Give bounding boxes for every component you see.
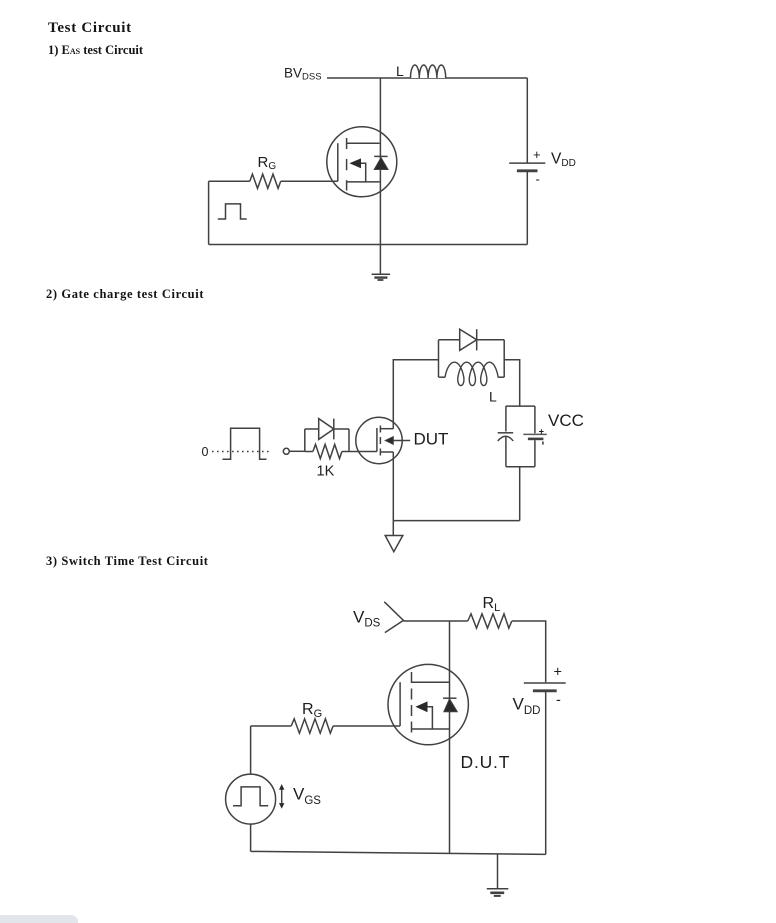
VCC block bottom bar [506, 466, 535, 468]
svg-text:VDS: VDS [353, 608, 381, 630]
label RG circuit3 [302, 701, 322, 720]
wire left vertical circuit1 [208, 181, 210, 244]
dotted reference line [212, 451, 270, 453]
label L [396, 63, 404, 79]
wire top rail circuit1 [327, 77, 527, 79]
wire to gate circuit2 [349, 451, 377, 453]
pulse symbol circuit2 [223, 428, 267, 459]
wire RL to battery [512, 621, 546, 682]
svg-text:+: + [539, 427, 544, 437]
resistor RL [468, 614, 512, 628]
label VDD circuit3 [513, 695, 541, 718]
ground circuit1 [372, 274, 391, 280]
svg-text:VCC: VCC [548, 411, 584, 430]
wire bottom rail circuit3 [251, 851, 546, 854]
wire RG to gate [333, 725, 400, 727]
svg-text:RG: RG [258, 154, 277, 172]
node left of RC network [304, 429, 306, 452]
svg-text:-: - [556, 693, 561, 709]
wire drain vertical to ground circuit1 [379, 78, 381, 274]
wire pulse-gen to resistor [209, 180, 250, 182]
wire clamp to VCC [504, 360, 520, 406]
title: Test Circuit [48, 20, 132, 37]
svg-text:BVDSS: BVDSS [284, 66, 322, 83]
svg-text:RL: RL [483, 595, 501, 614]
svg-text:L: L [396, 63, 404, 79]
wire drain-source vertical circuit3 [449, 621, 451, 854]
svg-text:VDD: VDD [513, 695, 541, 718]
minus tick VCC [542, 442, 544, 445]
wire bottom rail circuit2 [393, 520, 519, 522]
battery VDD circuit1 [509, 163, 545, 244]
svg-text:0: 0 [202, 445, 209, 459]
label RL [483, 595, 501, 614]
capacitor branch [498, 406, 514, 467]
mosfet Q1 (DUT) [327, 127, 397, 197]
wire diode down to resistor node [348, 429, 350, 452]
diode D2 freewheel [439, 329, 505, 350]
wire resistor to gate [281, 180, 338, 182]
label - minus circuit1 [536, 172, 540, 187]
label VDD circuit1 [551, 151, 576, 170]
ground arrow circuit2 [385, 521, 403, 552]
svg-text:DUT: DUT [414, 430, 449, 449]
label RG [258, 154, 277, 172]
wire right vertical top circuit1 [526, 78, 528, 163]
svg-text:VGS: VGS [293, 785, 321, 808]
label 1K [317, 464, 335, 480]
resistor 1K [305, 444, 349, 458]
clamp left vertical [438, 340, 440, 377]
label D.U.T [461, 752, 511, 772]
resistor RG circuit3 [291, 719, 333, 733]
heading 2) Gate charge test Circuit [46, 287, 204, 302]
label + plus circuit1 [533, 147, 541, 162]
svg-text:D.U.T: D.U.T [461, 752, 511, 772]
DUT pointer arrow [385, 437, 410, 445]
heading 1) Eas test Circuit [48, 43, 143, 58]
pulse symbol circuit1 [218, 204, 247, 219]
wire source down circuit2 [392, 452, 394, 521]
label + plus circuit3 [554, 665, 562, 681]
probe arrow VDS [384, 602, 403, 633]
wire probe to RL [403, 620, 467, 622]
svg-text:+: + [533, 147, 541, 162]
wire VCC down to bottom rail [519, 467, 521, 521]
svg-text:VDD: VDD [551, 151, 576, 170]
label 0 [202, 445, 209, 459]
svg-text:L: L [489, 389, 497, 405]
svg-text:-: - [536, 172, 540, 187]
wire terminal to network [289, 450, 305, 452]
resistor RG [250, 174, 281, 188]
label BVdss [284, 66, 322, 83]
wire VGS to RG [251, 725, 292, 727]
mosfet Q2 DUT [356, 417, 402, 463]
battery VDD circuit3 [524, 683, 566, 854]
ground circuit3 [487, 854, 509, 896]
label VDS [353, 608, 381, 630]
wire VGS top to RG rail [250, 726, 252, 774]
label DUT [414, 430, 449, 449]
inductor L circuit2 [439, 362, 505, 385]
heading 3) Switch Time Test Circuit [46, 554, 209, 569]
wire bottom rail circuit1 [209, 244, 528, 246]
label VGS [293, 785, 321, 808]
label + plus VCC [539, 427, 544, 437]
svg-text:+: + [554, 665, 562, 681]
VCC block top bar [506, 405, 535, 407]
battery VCC branch [523, 406, 547, 467]
label L circuit2 [489, 389, 497, 405]
input terminal circle [283, 448, 289, 454]
label VCC [548, 411, 584, 430]
status-bar overlay bottom-left [0, 915, 78, 923]
inductor L [410, 65, 445, 78]
wire VGS bottom to bottom rail [250, 824, 252, 851]
updown arrow VGS [279, 784, 284, 809]
clamp right vertical [503, 340, 505, 377]
svg-text:1K: 1K [317, 464, 335, 480]
pulse source VGS [226, 774, 276, 824]
mosfet Q3 D.U.T [388, 664, 468, 744]
wire drain riser circuit2 [393, 360, 438, 429]
svg-text:RG: RG [302, 701, 322, 720]
diode D1 over 1K resistor [305, 419, 349, 440]
label - minus circuit3 [556, 693, 561, 709]
